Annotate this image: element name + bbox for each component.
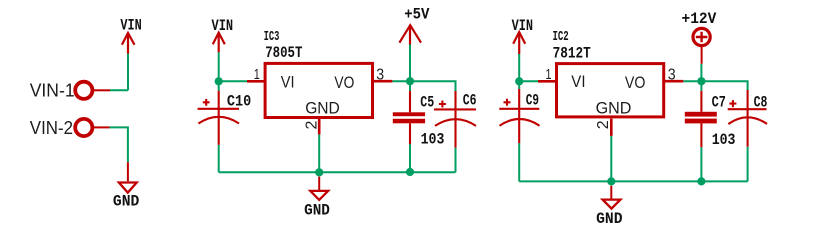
svg-text:GND: GND bbox=[305, 98, 340, 117]
svg-text:VIN-1: VIN-1 bbox=[30, 81, 75, 101]
svg-text:C7: C7 bbox=[712, 94, 726, 112]
svg-text:C8: C8 bbox=[754, 94, 768, 112]
svg-text:C5: C5 bbox=[420, 93, 434, 111]
svg-text:IC3: IC3 bbox=[264, 29, 280, 45]
svg-text:7812T: 7812T bbox=[553, 44, 592, 62]
svg-text:+5V: +5V bbox=[404, 5, 430, 23]
svg-text:VI: VI bbox=[571, 72, 585, 91]
svg-text:VIN: VIN bbox=[120, 17, 141, 35]
svg-text:2: 2 bbox=[303, 120, 320, 129]
svg-text:103: 103 bbox=[421, 130, 445, 148]
svg-text:C6: C6 bbox=[463, 92, 477, 110]
svg-text:VI: VI bbox=[281, 73, 295, 92]
svg-text:7805T: 7805T bbox=[265, 44, 303, 62]
svg-text:1: 1 bbox=[254, 66, 260, 83]
svg-text:GND: GND bbox=[596, 210, 622, 228]
svg-text:VIN: VIN bbox=[512, 17, 533, 35]
svg-text:VO: VO bbox=[625, 73, 646, 92]
svg-text:+12V: +12V bbox=[682, 10, 717, 28]
svg-text:C10: C10 bbox=[227, 93, 251, 111]
svg-text:GND: GND bbox=[113, 193, 139, 211]
svg-text:IC2: IC2 bbox=[553, 29, 569, 45]
svg-text:2: 2 bbox=[595, 120, 612, 129]
svg-text:3: 3 bbox=[668, 66, 676, 83]
svg-text:VIN: VIN bbox=[212, 17, 234, 35]
svg-text:C9: C9 bbox=[526, 91, 539, 109]
svg-text:VO: VO bbox=[334, 73, 354, 92]
svg-text:GND: GND bbox=[304, 202, 330, 220]
svg-text:103: 103 bbox=[712, 131, 736, 149]
svg-text:3: 3 bbox=[376, 66, 384, 83]
svg-text:1: 1 bbox=[546, 66, 552, 83]
svg-text:VIN-2: VIN-2 bbox=[30, 118, 73, 138]
svg-text:GND: GND bbox=[596, 99, 632, 118]
